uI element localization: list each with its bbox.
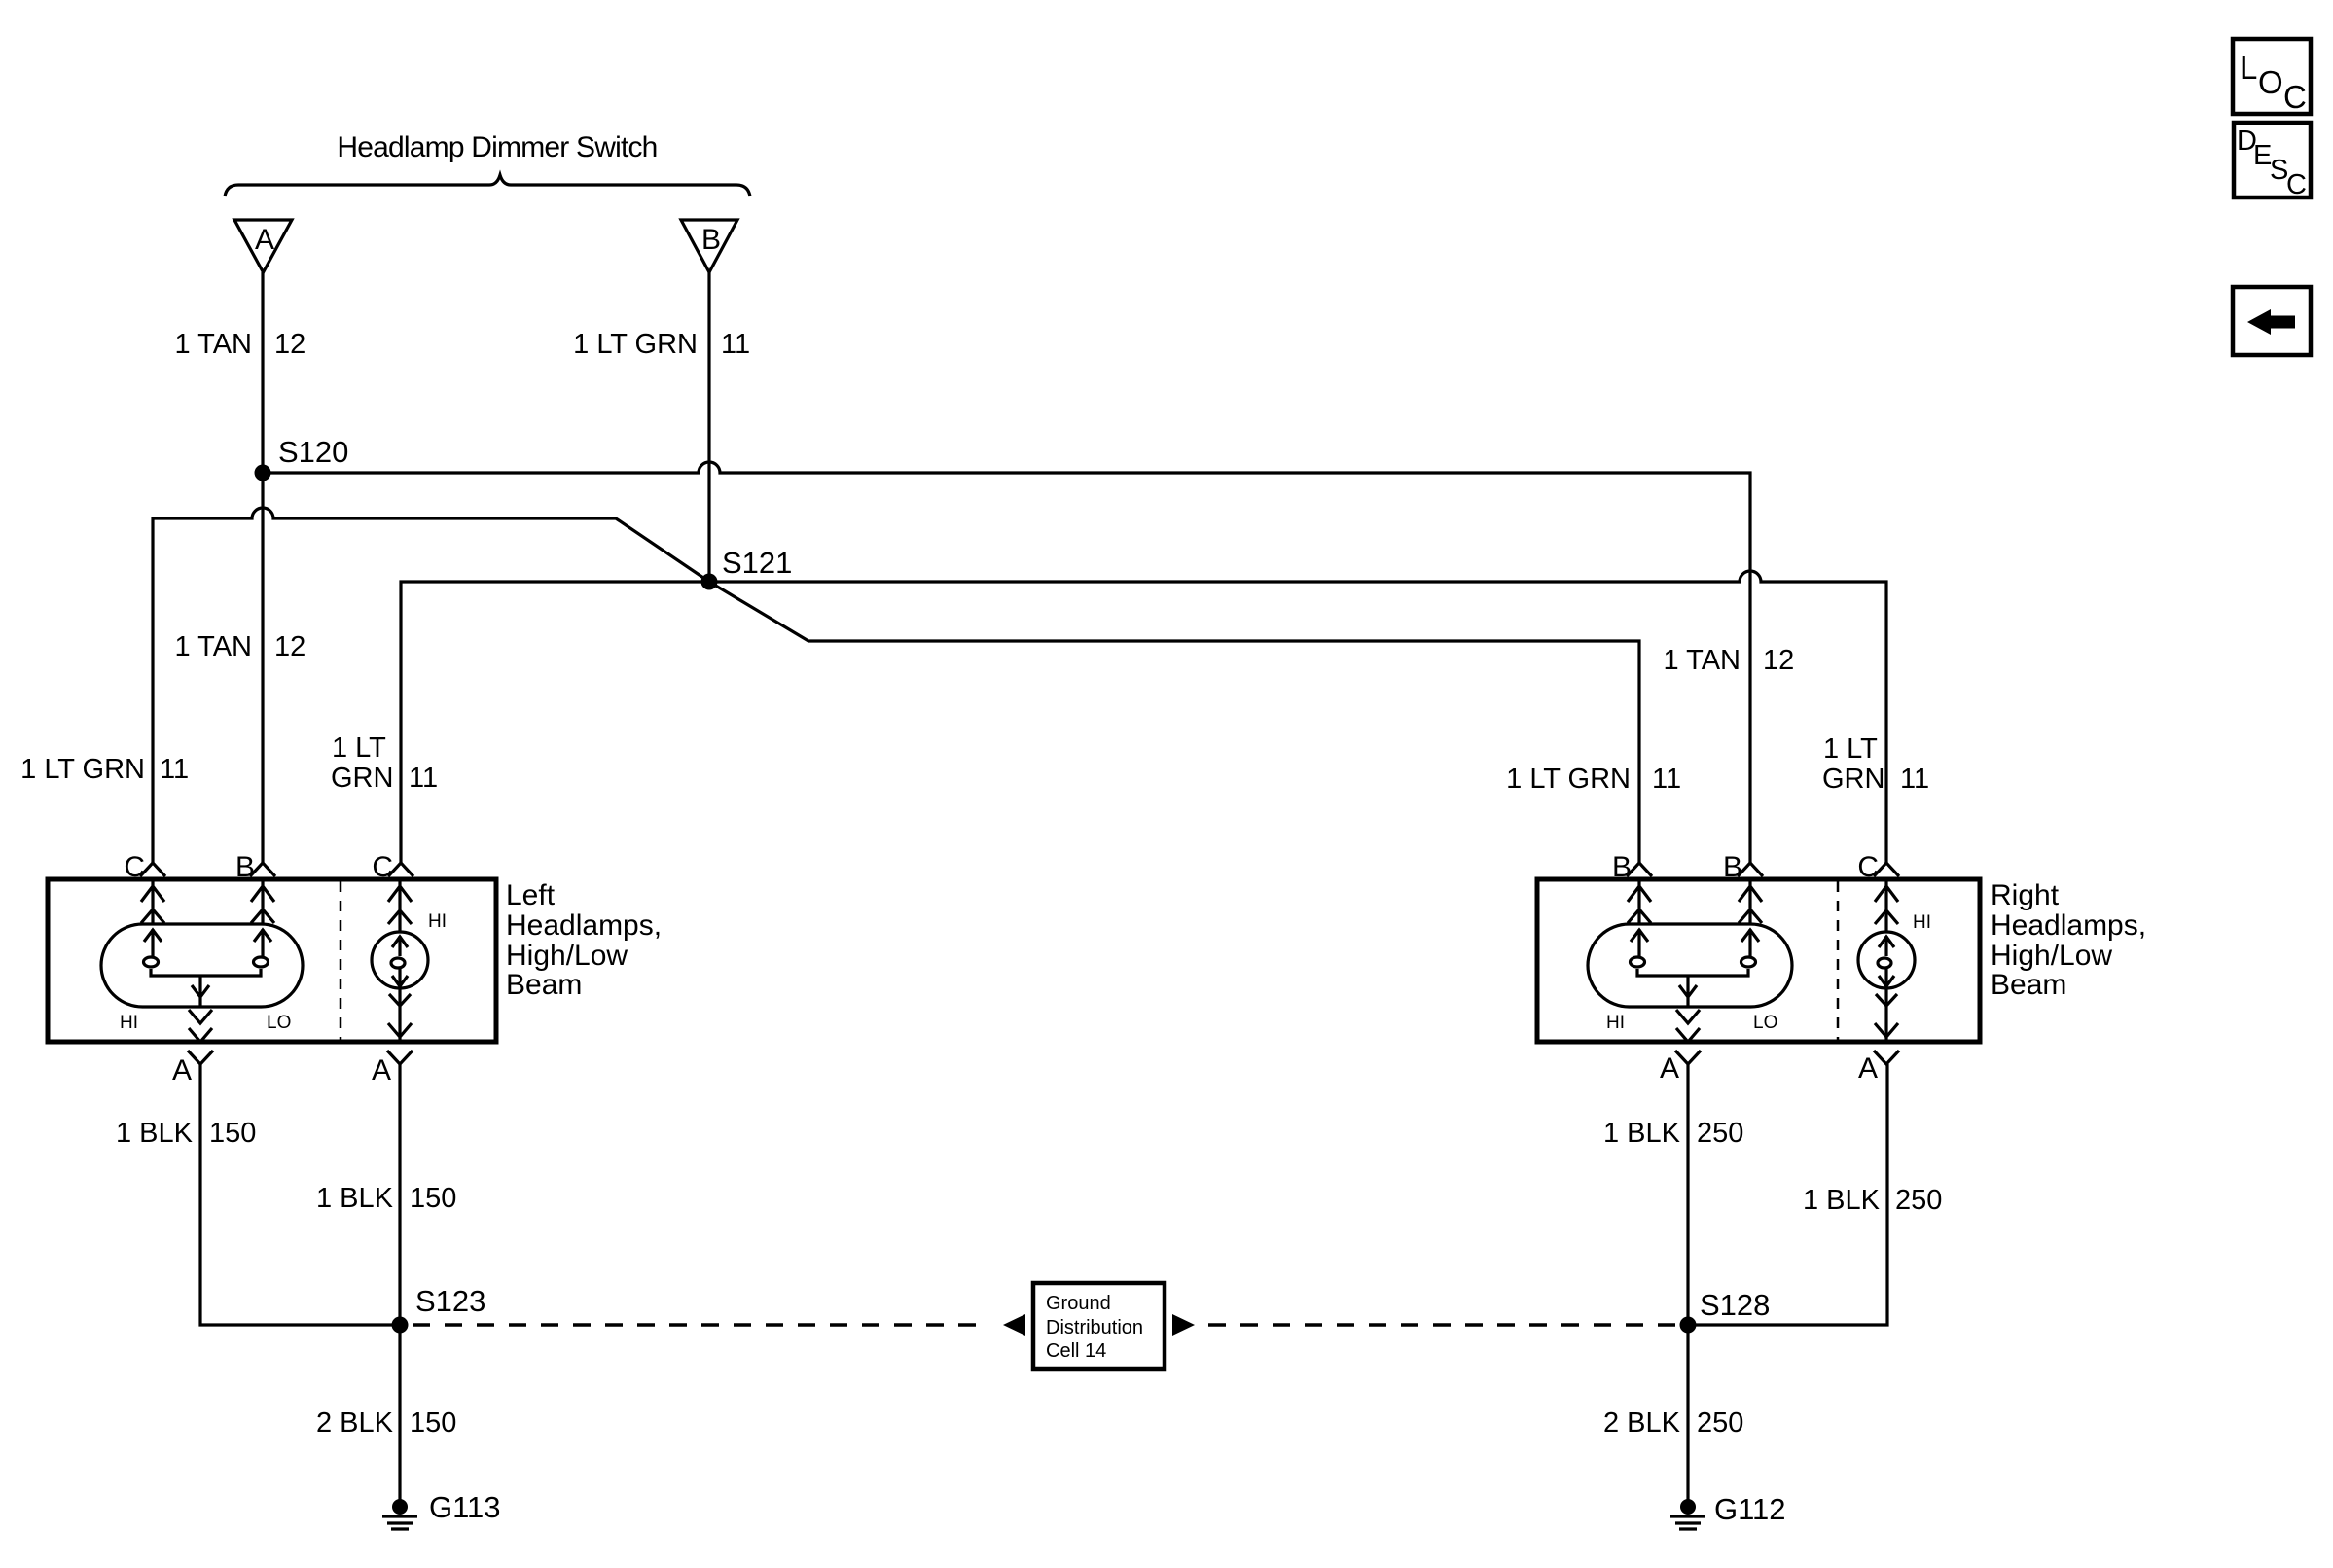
svg-text:1 BLK: 1 BLK (316, 1183, 394, 1214)
svg-text:Beam: Beam (506, 969, 582, 1001)
svg-text:1 LT: 1 LT (332, 732, 386, 764)
svg-text:12: 12 (1763, 645, 1794, 676)
splice S128 junction dot (1680, 1317, 1697, 1334)
svg-text:B: B (701, 224, 721, 256)
svg-text:1 LT GRN: 1 LT GRN (573, 329, 698, 360)
wire: horizontal from S120 to right headlamp pin B (1 TAN 12), hop over B wire (263, 462, 1750, 863)
label 1 TAN 12 (upper) (174, 329, 305, 360)
svg-text:Right: Right (1991, 879, 2060, 911)
svg-text:Cell 14: Cell 14 (1046, 1340, 1106, 1362)
label 1 BLK 150 (second) (316, 1183, 456, 1214)
ground G112 (1670, 1492, 1786, 1529)
svg-text:11: 11 (409, 763, 438, 794)
right headlamp name label (1991, 879, 2146, 1001)
left box pin A chevron below box (172, 1051, 213, 1087)
svg-text:250: 250 (1697, 1118, 1743, 1149)
left dual-filament lamp stadium (101, 924, 303, 1007)
right lamp HI filament (1631, 929, 1648, 957)
svg-text:B: B (1612, 851, 1632, 883)
svg-text:Distribution: Distribution (1046, 1317, 1143, 1338)
svg-text:12: 12 (274, 329, 305, 360)
LOC reference box (top right) (2233, 39, 2311, 115)
svg-text:1 TAN: 1 TAN (1663, 645, 1741, 676)
label 1 LT GRN 11 (right of S121 run) (1506, 764, 1681, 795)
left lamp LO filament (254, 929, 271, 957)
wire: 1 LT GRN 11 from connector B down to S121 (707, 272, 710, 582)
left box pin C (low beam feed) connector chevron and letter (124, 851, 165, 883)
svg-text:A: A (1858, 1052, 1878, 1085)
svg-text:A: A (255, 224, 274, 256)
wire: 1 BLK 250 from right pin A2 down and left to S128 (1696, 1064, 1887, 1325)
svg-text:HI: HI (1913, 912, 1931, 933)
label 1 LT GRN 11 (far left) (20, 754, 189, 785)
right box pin B (low) connector chevron and letter (1612, 851, 1652, 883)
svg-text:11: 11 (1652, 764, 1681, 795)
svg-text:1 BLK: 1 BLK (1603, 1118, 1681, 1149)
svg-text:B: B (1723, 851, 1742, 883)
svg-text:C: C (124, 851, 145, 883)
right arrowhead pointing to S128 (1172, 1314, 1195, 1336)
svg-text:A: A (172, 1054, 192, 1087)
label 1 BLK 250 (1603, 1118, 1743, 1149)
label 2 BLK 250 (1603, 1408, 1743, 1439)
left box down chevrons to pin A (lamp common) (189, 1010, 212, 1042)
svg-text:LO: LO (1753, 1013, 1777, 1033)
right box down chevrons to pin A (lamp common) (1676, 1010, 1700, 1042)
svg-text:2 BLK: 2 BLK (1603, 1408, 1681, 1439)
left lamp HI filament (144, 929, 162, 957)
label 2 BLK 150 (316, 1408, 456, 1439)
right box pin A2 chevron below box (1858, 1051, 1899, 1085)
svg-text:1 LT: 1 LT (1823, 733, 1878, 765)
left box pin B connector chevron and letter (235, 851, 275, 883)
svg-text:L: L (2240, 50, 2257, 86)
svg-text:12: 12 (274, 631, 305, 662)
svg-text:Headlamps,: Headlamps, (1991, 909, 2146, 942)
left arrowhead pointing to S123 (1003, 1314, 1025, 1336)
right box internal up-arrows for pin B2 (1739, 879, 1762, 924)
svg-text:11: 11 (160, 754, 189, 785)
svg-text:GRN: GRN (331, 763, 393, 794)
wire: 1 LT GRN 11 from S121 horizontal to left headlamp pin C (HI) and right headlamp pin C, hop over TAN wire (401, 571, 1886, 863)
svg-text:C: C (2286, 169, 2307, 200)
svg-text:S128: S128 (1700, 1288, 1770, 1322)
wire: 1 BLK 150 from left pin A down and right to S123 (200, 1064, 392, 1325)
left lamp HI LO labels (120, 1013, 291, 1033)
svg-text:S123: S123 (415, 1284, 485, 1318)
splice S123 junction dot (392, 1317, 409, 1334)
left headlamp name label (506, 879, 662, 1001)
right box pin A chevron below box (1660, 1051, 1701, 1085)
connector A triangle (234, 220, 292, 272)
dashed ground distribution wire left (S123 to cell box) (413, 1323, 989, 1327)
left box pin C (HI) connector chevron and letter (372, 851, 413, 883)
svg-text:2 BLK: 2 BLK (316, 1408, 394, 1439)
svg-text:G112: G112 (1714, 1492, 1786, 1526)
svg-text:Ground: Ground (1046, 1293, 1111, 1314)
left box dashed internal divider (340, 881, 342, 1040)
svg-text:G113: G113 (429, 1490, 501, 1524)
left HI lamp filament (392, 936, 408, 986)
wire: 1 TAN 12 from connector A down through S120 to left headlamp pin B (261, 272, 264, 863)
right box pin C (HI) connector chevron and letter (1857, 851, 1899, 883)
right HI lamp feed line with up-arrows (1875, 879, 1898, 932)
label 1 BLK 250 (second) (1803, 1185, 1942, 1216)
svg-text:HI: HI (428, 911, 447, 932)
svg-text:Beam: Beam (1991, 969, 2066, 1001)
svg-text:150: 150 (410, 1183, 456, 1214)
svg-text:High/Low: High/Low (1991, 940, 2112, 972)
right lamp LO filament (1741, 929, 1759, 957)
svg-text:S120: S120 (278, 435, 348, 469)
right lamp common bus and down arrow (1637, 969, 1748, 1007)
label 1 TAN 12 (left lower) (174, 631, 305, 662)
left lamp common bus and down arrow (151, 969, 261, 1007)
svg-text:Headlamp Dimmer Switch: Headlamp Dimmer Switch (337, 131, 657, 163)
svg-text:LO: LO (267, 1013, 291, 1033)
label 1 LT GRN 11 two lines (right inner) (1822, 733, 1929, 795)
svg-text:C: C (2283, 79, 2307, 115)
left HI lamp feed line with up-arrows (388, 879, 412, 932)
svg-text:150: 150 (209, 1118, 256, 1149)
svg-text:11: 11 (1900, 764, 1929, 795)
right HI lamp down chevrons to pin A (1875, 988, 1898, 1042)
svg-text:Headlamps,: Headlamps, (506, 909, 662, 942)
svg-text:S121: S121 (722, 546, 792, 580)
svg-text:A: A (372, 1054, 391, 1087)
label: Headlamp Dimmer Switch title (337, 131, 657, 163)
svg-text:HI: HI (1606, 1013, 1625, 1033)
splice S120 junction dot (255, 465, 271, 481)
svg-text:HI: HI (120, 1013, 138, 1033)
dashed ground distribution wire right (cell box to S128) (1208, 1323, 1675, 1327)
svg-text:1 BLK: 1 BLK (1803, 1185, 1881, 1216)
label 1 LT GRN 11 (upper) (573, 329, 750, 360)
left HI lamp down chevrons to pin A (388, 988, 412, 1042)
svg-text:250: 250 (1895, 1185, 1942, 1216)
svg-text:A: A (1660, 1052, 1679, 1085)
svg-text:1 TAN: 1 TAN (174, 329, 252, 360)
right box dashed internal divider (1837, 881, 1840, 1040)
ground G113 (382, 1490, 501, 1529)
wire: 1 BLK 250 from right pin A down through S128 to G112 (1686, 1064, 1689, 1503)
svg-text:High/Low: High/Low (506, 940, 628, 972)
svg-text:1 LT GRN: 1 LT GRN (1506, 764, 1631, 795)
left headlamp box outline (48, 879, 496, 1042)
label 1 LT GRN 11 two lines (left inner) (331, 732, 438, 794)
left box pin A2 chevron below box (372, 1051, 413, 1087)
wire: 1 LT GRN 11 from left headlamp pin C up, right, diagonal through S121, to right headlamp pin B (153, 508, 1639, 863)
svg-text:Left: Left (506, 879, 556, 911)
right headlamp box outline (1537, 879, 1980, 1042)
brace under Headlamp Dimmer Switch (225, 175, 750, 196)
svg-text:1 BLK: 1 BLK (116, 1118, 194, 1149)
label 1 TAN 12 (right branch) (1663, 645, 1794, 676)
left box internal up-arrows for pin C (141, 879, 164, 924)
right box pin B (tan) connector chevron and letter (1723, 851, 1763, 883)
svg-text:B: B (235, 851, 255, 883)
svg-text:11: 11 (721, 329, 750, 360)
back arrow box (2233, 287, 2311, 355)
right HI lamp filament (1879, 936, 1894, 986)
svg-text:250: 250 (1697, 1408, 1743, 1439)
right dual-filament lamp stadium (1588, 924, 1792, 1007)
label 1 BLK 150 (116, 1118, 256, 1149)
left box internal up-arrows for pin B (251, 879, 274, 924)
svg-text:C: C (1857, 851, 1879, 883)
right HI lamp circle (1858, 932, 1915, 988)
left HI lamp circle (372, 932, 428, 988)
svg-text:1 TAN: 1 TAN (174, 631, 252, 662)
Ground Distribution Cell 14 box (1033, 1283, 1165, 1369)
svg-text:1 LT GRN: 1 LT GRN (20, 754, 145, 785)
right lamp HI LO labels (1606, 1013, 1777, 1033)
wire: 1 BLK 150 from left pin A2 down through S123 to G113 (398, 1064, 401, 1503)
DESC reference box (2234, 123, 2311, 200)
svg-text:GRN: GRN (1822, 764, 1884, 795)
svg-text:O: O (2258, 64, 2283, 100)
connector B triangle (681, 220, 737, 272)
svg-text:C: C (372, 851, 393, 883)
splice S121 junction dot (701, 574, 718, 590)
right box internal up-arrows for pin B1 (1628, 879, 1651, 924)
svg-text:150: 150 (410, 1408, 456, 1439)
